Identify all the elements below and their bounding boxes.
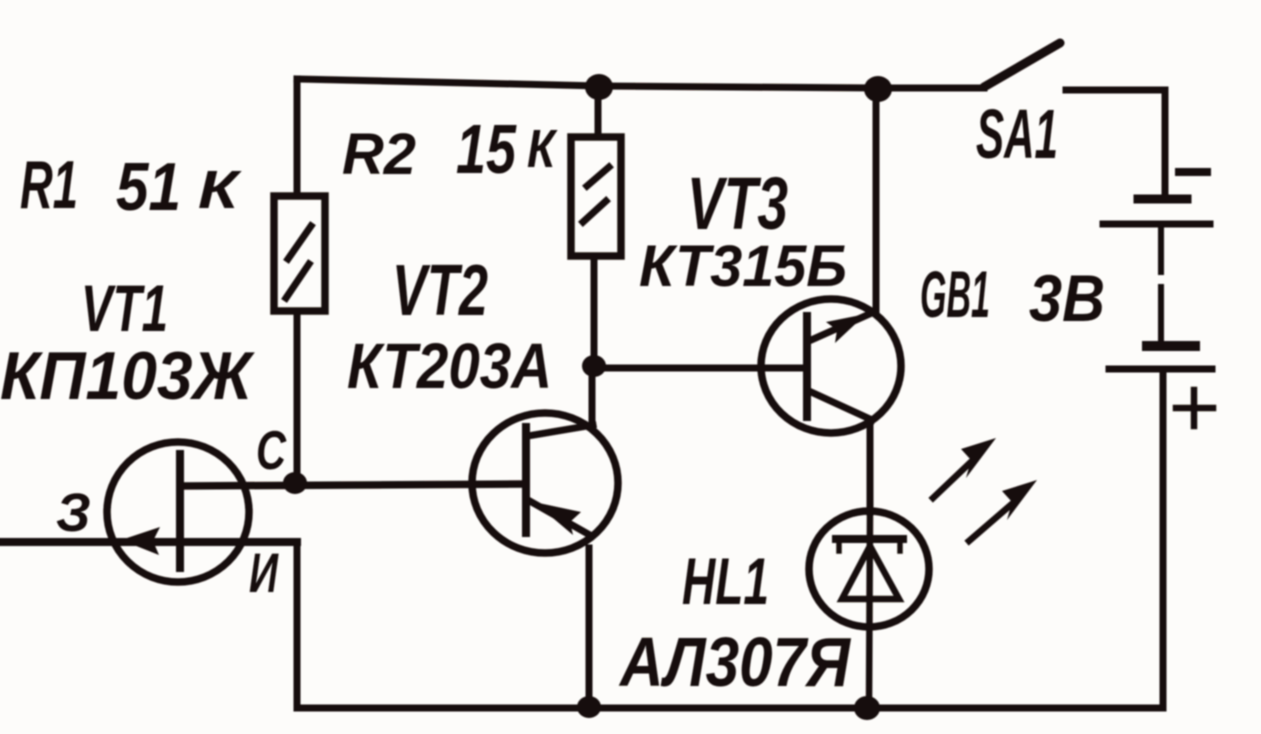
wire bottom rail [297, 705, 1163, 712]
transistor VT2 base bar [522, 427, 530, 533]
svg-text:GB1: GB1 [920, 257, 990, 331]
plus sign [1176, 405, 1213, 412]
svg-text:VT3: VT3 [687, 162, 788, 245]
VT1 gate arrow [121, 527, 160, 555]
node bottom VT2 [577, 696, 601, 718]
VT2 collector diagonal [528, 425, 593, 436]
VT3 collector diagonal [809, 391, 872, 420]
light arrow 1 [933, 460, 973, 498]
HL1 cathode bar [836, 535, 903, 543]
transistor VT1 circle [107, 442, 249, 582]
transistor VT2 circle [472, 413, 618, 553]
wire top rail [297, 79, 984, 88]
VT3 emitter diagonal (arrow up-right) [809, 312, 874, 341]
wire between cells [1158, 227, 1164, 272]
VT2 emitter arrow [534, 502, 581, 535]
wire R1 top lead [294, 79, 301, 196]
node top VT3 [864, 76, 892, 102]
wire VT3 top to rail [873, 89, 880, 313]
wire VT3 bottom to HL1 [867, 420, 874, 512]
svg-text:15: 15 [456, 110, 517, 188]
resistor R2 [571, 137, 621, 256]
node top R2 [585, 74, 613, 100]
svg-text:VT2: VT2 [392, 251, 488, 331]
transistor VT1 channel bar [176, 454, 184, 568]
wire R2 top lead [595, 87, 602, 137]
transistor VT3 circle [761, 299, 901, 433]
svg-text:51: 51 [116, 149, 181, 225]
wire node B to VT3 base [594, 365, 806, 372]
svg-text:З: З [56, 483, 91, 543]
wire VT1 gate-source line [0, 538, 297, 546]
battery GB1 cell2 long plate [1109, 366, 1212, 373]
light arrow 2 [969, 503, 1013, 541]
svg-text:КП103Ж: КП103Ж [0, 338, 256, 414]
svg-text:КТ203А: КТ203А [347, 330, 552, 402]
HL1 triangle [842, 546, 899, 599]
wire R2 bottom lead [591, 256, 598, 367]
resistor R1 [274, 196, 325, 311]
svg-text:HL1: HL1 [682, 544, 769, 618]
node bottom HL1 [854, 696, 880, 720]
svg-text:К: К [527, 119, 558, 179]
svg-text:SA1: SA1 [976, 95, 1058, 173]
transistor VT3 base bar [803, 316, 811, 417]
wire VT1 drain line [180, 484, 526, 486]
battery GB1 cell1 short plate (-) [1138, 195, 1187, 204]
switch SA1 blade [984, 43, 1060, 87]
svg-text:К: К [198, 160, 243, 220]
svg-text:R2: R2 [342, 122, 416, 187]
wire VT2 emitter down [586, 548, 593, 708]
LED HL1 circle [809, 511, 929, 627]
VT3 emitter arrow [826, 314, 866, 343]
wire switch to battery [1066, 90, 1165, 197]
node A (R1 / drain) [283, 472, 307, 494]
battery GB1 cell1 long plate [1103, 221, 1210, 228]
wire R1 bottom lead [294, 311, 301, 483]
minus sign [1179, 168, 1207, 176]
svg-text:3В: 3В [1029, 261, 1105, 335]
VT2 emitter diagonal [528, 500, 588, 534]
wire node B down to VT2 collector [589, 368, 596, 426]
svg-text:C: C [256, 419, 287, 481]
wire HL1 vertical through [869, 512, 870, 708]
svg-text:АЛ307Я: АЛ307Я [618, 623, 851, 701]
svg-text:И: И [249, 541, 279, 604]
svg-text:VT1: VT1 [81, 271, 168, 345]
svg-text:КТ315Б: КТ315Б [639, 234, 847, 299]
svg-text:R1: R1 [20, 147, 78, 223]
wire VT1 source down [294, 542, 301, 708]
battery GB1 cell2 short plate [1147, 341, 1195, 351]
node B (R2 / VT3 base / VT2 collector) [582, 355, 606, 377]
wire battery to bottom rail [1160, 372, 1167, 708]
